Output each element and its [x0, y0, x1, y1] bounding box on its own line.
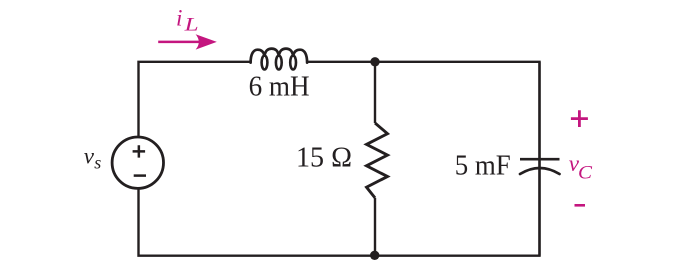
- current arrow iL head (magenta): [196, 34, 217, 49]
- svg-text:5 mF: 5 mF: [455, 150, 511, 182]
- voltage source vs circle: [112, 137, 163, 188]
- svg-text:v: v: [84, 143, 95, 168]
- inductor L1 (6 mH) hump 1: [251, 50, 265, 63]
- inductor L1 hump 3: [279, 49, 293, 56]
- inductor L1 loop 3: [290, 56, 296, 70]
- capacitor C1 (5 mF) top plate: [520, 158, 560, 161]
- node junction bottom: [370, 251, 379, 260]
- plus sign above capacitor (magenta): [571, 110, 588, 127]
- svg-text:15 Ω: 15 Ω: [296, 142, 352, 174]
- current arrow iL shaft (magenta): [158, 41, 203, 44]
- inductor L1 loop 2: [276, 56, 282, 70]
- svg-text:s: s: [94, 153, 101, 173]
- plus sign inside source: [133, 145, 146, 157]
- svg-text:6 mH: 6 mH: [249, 71, 310, 103]
- resistor R1 (15 ohm) zigzag: [367, 123, 388, 198]
- wire middle branch lower: [374, 198, 376, 256]
- wire middle branch upper: [374, 62, 376, 123]
- inductor L1 hump 2: [265, 49, 279, 56]
- node junction top: [370, 57, 379, 66]
- minus sign inside source: [134, 174, 146, 177]
- capacitor C1 curved bottom plate: [520, 168, 560, 174]
- wire top-right + right side + bottom + left lower (perimeter): [139, 62, 540, 256]
- wire top-left segment with corner to source top: [139, 62, 252, 137]
- inductor L1 loop 1: [262, 56, 268, 70]
- wire right vertical through capacitor: [538, 62, 540, 256]
- svg-text:C: C: [578, 162, 592, 183]
- inductor L1 hump 4: [293, 50, 307, 63]
- svg-text:i: i: [176, 5, 182, 30]
- svg-text:L: L: [183, 14, 198, 35]
- minus sign below capacitor (magenta): [575, 204, 586, 207]
